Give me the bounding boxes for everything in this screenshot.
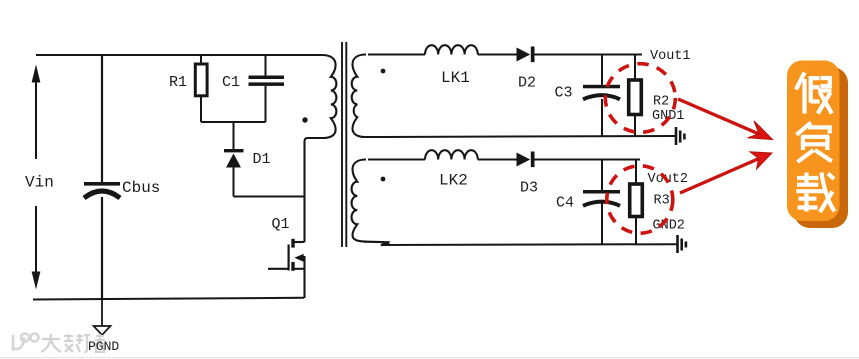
wire R3 branch [635,160,637,185]
wire LK2 to D3 [478,159,517,161]
resistor R3 [630,184,643,217]
svg-text:R3: R3 [654,194,670,209]
capacitor Cbus [84,182,120,198]
wire bottom rail [33,298,304,300]
inductor LK1 [425,45,478,54]
watermark characters [41,334,105,352]
svg-text:D1: D1 [253,151,271,168]
svg-text:GND2: GND2 [653,219,685,234]
PGND stub wire [101,299,103,326]
wire snubber bottom [201,121,266,123]
diode D3 [517,152,535,168]
capacitor C4 [583,190,620,206]
transformer secondary winding 1 [352,55,366,138]
svg-text:LK2: LK2 [439,172,468,190]
wire D2 to Vout1 [535,54,643,56]
wire R2 branch [634,55,636,81]
transformer secondary winding 2 [352,160,366,242]
svg-text:LK1: LK1 [441,69,470,87]
highlight ellipse around R2 [605,64,675,133]
diode D1 [224,149,244,168]
wire C3 branch [601,55,603,85]
highlight ellipse around R3 [607,166,673,233]
wire R1 branch [200,55,202,64]
svg-text:R2: R2 [653,94,669,109]
wire D1 top lead [233,122,235,149]
wire secondary1 top [368,54,425,56]
svg-text:Cbus: Cbus [122,179,160,197]
capacitor C1 [249,76,285,86]
red arrow 2 [680,152,772,193]
secondary 1 phase dot [381,69,386,74]
secondary 2 phase dot [381,177,386,182]
wire LK1 to D2 [478,54,517,56]
badge character 假 [796,73,832,114]
wire clamp to switch node [234,196,305,198]
inductor LK2 [425,150,478,159]
svg-text:C3: C3 [555,85,573,102]
bottom hairline [0,357,859,358]
transformer primary winding [305,55,337,142]
overlap joint on secondary2 bottom wire [364,242,387,246]
Vin up arrow [32,65,41,160]
wire secondary2 bottom [381,243,677,246]
wire C4 branch [601,160,603,191]
svg-text:C1: C1 [222,74,240,91]
ground GND2 symbol [678,235,686,253]
svg-text:Q1: Q1 [272,216,290,233]
wire drain vertical [303,142,305,243]
ground GND1 symbol [676,127,684,145]
svg-text:D3: D3 [520,180,538,197]
svg-text:PGND: PGND [88,339,119,354]
dummy load badge body [787,61,840,222]
capacitor C3 [583,85,620,100]
red arrow 1 [678,99,773,140]
wire D3 to Vout2 [535,159,641,161]
resistor R1 [195,64,207,96]
watermark logo [13,334,39,352]
dummy load badge shadow [794,67,848,228]
transistor Q1 [268,239,305,298]
wire Cbus branch [101,55,103,182]
Vin down arrow [32,206,41,290]
diode D2 [517,47,535,63]
badge character 载 [796,173,834,213]
ground PGND symbol [94,326,111,335]
wire C1 branch [265,55,267,76]
wire secondary1 bottom [364,136,676,137]
svg-text:C4: C4 [556,195,574,212]
transformer core [341,42,343,247]
svg-text:R1: R1 [169,74,187,91]
svg-text:Vin: Vin [25,174,54,192]
resistor R2 [629,80,642,115]
svg-text:D2: D2 [518,75,536,92]
badge character 负 [797,123,832,163]
wire secondary2 top [368,159,425,161]
wire top rail [36,54,323,56]
wire D1 bottom lead [233,168,235,197]
svg-text:Vout1: Vout1 [650,49,691,64]
primary phase dot [302,117,307,122]
